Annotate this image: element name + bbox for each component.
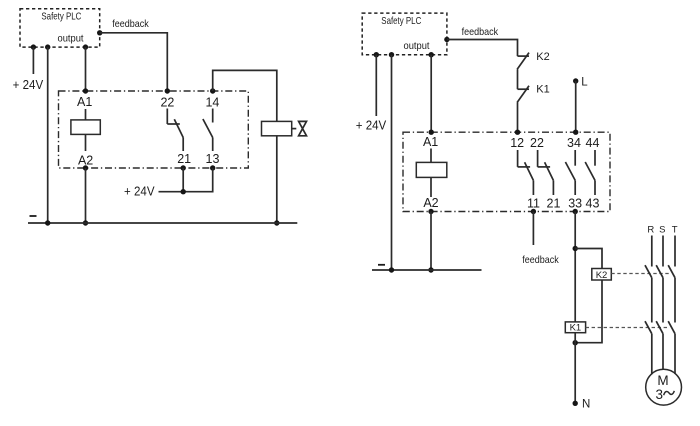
label 21 (left) — [177, 152, 191, 166]
svg-text:M: M — [657, 373, 668, 388]
svg-text:N: N — [582, 399, 590, 411]
wire PLC 0V pin to bus (left) — [47, 47, 49, 223]
node PLC output pin (left) — [83, 44, 88, 49]
svg-text:feedback: feedback — [462, 26, 499, 38]
label output (left) — [58, 33, 84, 45]
svg-text:3: 3 — [655, 387, 663, 402]
svg-text:Safety PLC: Safety PLC — [41, 10, 81, 22]
wire +24V stub (right) — [375, 55, 377, 116]
wire K1 coil to N (right) — [574, 333, 576, 404]
contact K2 NC (right) — [517, 53, 529, 70]
relay module boundary (right) — [403, 132, 610, 211]
label K2 coil (right) — [596, 270, 608, 281]
svg-text:R: R — [647, 225, 654, 236]
label feedback (right bottom) — [522, 254, 559, 266]
contact 34-33 NO (right) — [565, 150, 575, 195]
svg-text:K2: K2 — [596, 270, 608, 281]
wire feedback stub from 11 (right) — [532, 212, 534, 246]
node terminal 11 (right) — [531, 209, 536, 214]
relay coil (left) — [71, 120, 100, 134]
wire K2 to K1 (right) — [517, 69, 519, 89]
wire L to terminal 34 (right) — [575, 81, 577, 132]
node PLC feedback pin (left) — [97, 30, 102, 35]
label K1 (right) — [536, 84, 549, 96]
label 43 (right) — [586, 197, 600, 211]
wire output to A1 (right) — [430, 55, 432, 133]
svg-text:21: 21 — [547, 197, 561, 211]
wire +24V stub (left) — [32, 47, 34, 74]
node A2 (right) — [428, 209, 433, 214]
label minus (left) — [30, 215, 37, 217]
wire A2 to bus (left) — [85, 168, 87, 223]
svg-text:feedback: feedback — [522, 254, 559, 266]
label + 24V (right) — [356, 118, 387, 132]
node terminal 33 (right) — [573, 209, 578, 214]
wire feedback to contact 22 (left) — [100, 33, 168, 91]
svg-text:T: T — [672, 225, 678, 236]
wire A1 to coil (right) — [430, 149, 432, 163]
wire solenoid to bus (left) — [276, 136, 278, 223]
relay module boundary (left) — [59, 91, 249, 168]
svg-text:44: 44 — [586, 136, 600, 150]
wire +24V rail to 13 and 21 (left) — [159, 168, 213, 192]
label 22 (left) — [160, 96, 174, 110]
label Safety PLC (left) — [41, 10, 81, 22]
node 21 junction on +24V rail (left) — [181, 189, 186, 194]
contact 22-21 NC (right) — [538, 150, 554, 195]
phase R wire and contacts (right) — [645, 236, 652, 375]
wire coil to A2 (right) — [430, 177, 432, 197]
node K2 return junction (right) — [573, 340, 578, 345]
wire PLC 0V pin to bus (right) — [391, 55, 393, 270]
contact 44-43 NO (right) — [585, 150, 595, 195]
label + 24V (left top) — [13, 78, 44, 92]
linkage K1 coil to contacts (right) — [586, 327, 667, 329]
node 0V wire on bus (right) — [389, 267, 394, 272]
svg-text:+ 24V: + 24V — [124, 185, 155, 199]
label 33 (right) — [568, 197, 582, 211]
contact 14-13 NO (left) — [203, 109, 213, 152]
node N (right) — [573, 401, 578, 406]
svg-text:+ 24V: + 24V — [356, 118, 387, 132]
label + 24V (left bottom) — [124, 185, 155, 199]
wire 33 to K1 coil (right) — [574, 212, 576, 322]
svg-text:K1: K1 — [570, 323, 582, 334]
wire 21 to +24V rail (left) — [182, 168, 184, 192]
label K1 coil (right) — [570, 323, 582, 334]
wire branch to K2 coil (right) — [575, 249, 602, 269]
0V bus (left) — [28, 222, 297, 224]
node contact 22 top (left) — [165, 88, 170, 93]
contactor coil K1 (right) — [565, 322, 585, 333]
relay coil (right) — [416, 162, 447, 177]
node A2 wire on bus (right) — [428, 267, 433, 272]
node branch to K2 coil (right) — [573, 246, 578, 251]
contact 12-11 NC (right) — [518, 150, 534, 195]
label feedback (right top) — [462, 26, 499, 38]
svg-text:A1: A1 — [423, 135, 438, 149]
svg-text:output: output — [58, 33, 84, 45]
contact 22-21 NC (left) — [167, 109, 183, 152]
label output (right) — [404, 40, 430, 52]
linkage K2 coil to contacts (right) — [611, 273, 669, 275]
label 12 (right) — [510, 136, 524, 150]
contactor coil K2 (right) — [592, 269, 612, 281]
node A2 (left) — [83, 165, 88, 170]
wire feedback to contact K2 (right) — [447, 40, 518, 57]
wire A1 to coil (left) — [85, 109, 87, 120]
label 22 (right) — [530, 136, 544, 150]
svg-text:feedback: feedback — [112, 18, 149, 30]
node PLC 0V pin (left) — [45, 44, 50, 49]
label A1 (right) — [423, 135, 438, 149]
label S (right) — [659, 225, 665, 236]
wire output to A1 (left) — [85, 47, 87, 91]
label T (right) — [672, 225, 678, 236]
motor M 3-phase (right) — [646, 369, 682, 405]
svg-text:14: 14 — [205, 96, 219, 110]
svg-text:21: 21 — [177, 152, 191, 166]
node PLC +24V pin (right) — [374, 52, 379, 57]
label A2 (left) — [78, 153, 93, 167]
label A1 (left) — [77, 95, 92, 109]
label R (right) — [647, 225, 654, 236]
svg-text:A2: A2 — [423, 196, 438, 210]
node 0V wire on bus (left) — [45, 220, 50, 225]
wire K1 to terminal 12 (right) — [517, 103, 519, 133]
label feedback (left) — [112, 18, 149, 30]
label 11 (right) — [527, 197, 540, 211]
svg-text:22: 22 — [160, 96, 174, 110]
wire coil to A2 (left) — [85, 134, 87, 151]
contact K1 NC (right) — [517, 86, 529, 103]
label A2 (right) — [423, 196, 438, 210]
svg-text:+ 24V: + 24V — [13, 78, 44, 92]
node 21 (left) — [181, 165, 186, 170]
svg-text:Safety PLC: Safety PLC — [381, 15, 421, 27]
node A1 (left) — [83, 88, 88, 93]
label N (right) — [582, 399, 590, 411]
label 13 (left) — [206, 152, 220, 166]
safety PLC box (left) — [20, 9, 100, 47]
node PLC output pin (right) — [429, 52, 434, 57]
node terminal 12 (right) — [515, 130, 520, 135]
svg-text:K1: K1 — [536, 84, 549, 96]
svg-text:11: 11 — [527, 197, 540, 211]
svg-text:22: 22 — [530, 136, 544, 150]
svg-text:A2: A2 — [78, 153, 93, 167]
wire A2 to bus (right) — [430, 212, 432, 271]
wire 14 to solenoid (left) — [213, 70, 277, 121]
safety PLC box (right) — [362, 13, 447, 55]
phase T wire and contacts (right) — [668, 236, 675, 374]
svg-text:output: output — [404, 40, 430, 52]
label minus (right) — [378, 264, 385, 266]
node PLC 0V pin (right) — [389, 52, 394, 57]
svg-text:12: 12 — [510, 136, 524, 150]
valve symbol (left) — [292, 121, 307, 135]
label Safety PLC (right) — [381, 15, 421, 27]
node A1 (right) — [429, 130, 434, 135]
node A2 wire on bus (left) — [83, 220, 88, 225]
label 34 (right) — [567, 136, 581, 150]
node PLC feedback pin (right) — [444, 37, 449, 42]
0V bus (right) — [372, 269, 482, 271]
node 13 (left) — [210, 165, 215, 170]
svg-text:34: 34 — [567, 136, 581, 150]
node PLC +24V pin (left) — [31, 44, 36, 49]
label K2 (right) — [536, 51, 549, 63]
svg-text:13: 13 — [206, 152, 220, 166]
svg-text:L: L — [581, 76, 588, 88]
label L (right) — [581, 76, 588, 88]
svg-text:A1: A1 — [77, 95, 92, 109]
wire K2 coil return (right) — [575, 280, 602, 343]
node solenoid on bus (left) — [274, 220, 279, 225]
node terminal 34 (right) — [573, 130, 578, 135]
node contact 14 top (left) — [210, 88, 215, 93]
svg-text:33: 33 — [568, 197, 582, 211]
label 21 (right) — [547, 197, 561, 211]
phase S wire and contacts (right) — [656, 236, 663, 370]
label 14 (left) — [205, 96, 219, 110]
svg-text:K2: K2 — [536, 51, 549, 63]
svg-text:S: S — [659, 225, 665, 236]
node L (right) — [573, 78, 578, 83]
label 44 (right) — [586, 136, 600, 150]
solenoid coil (left) — [262, 121, 292, 135]
svg-text:43: 43 — [586, 197, 600, 211]
